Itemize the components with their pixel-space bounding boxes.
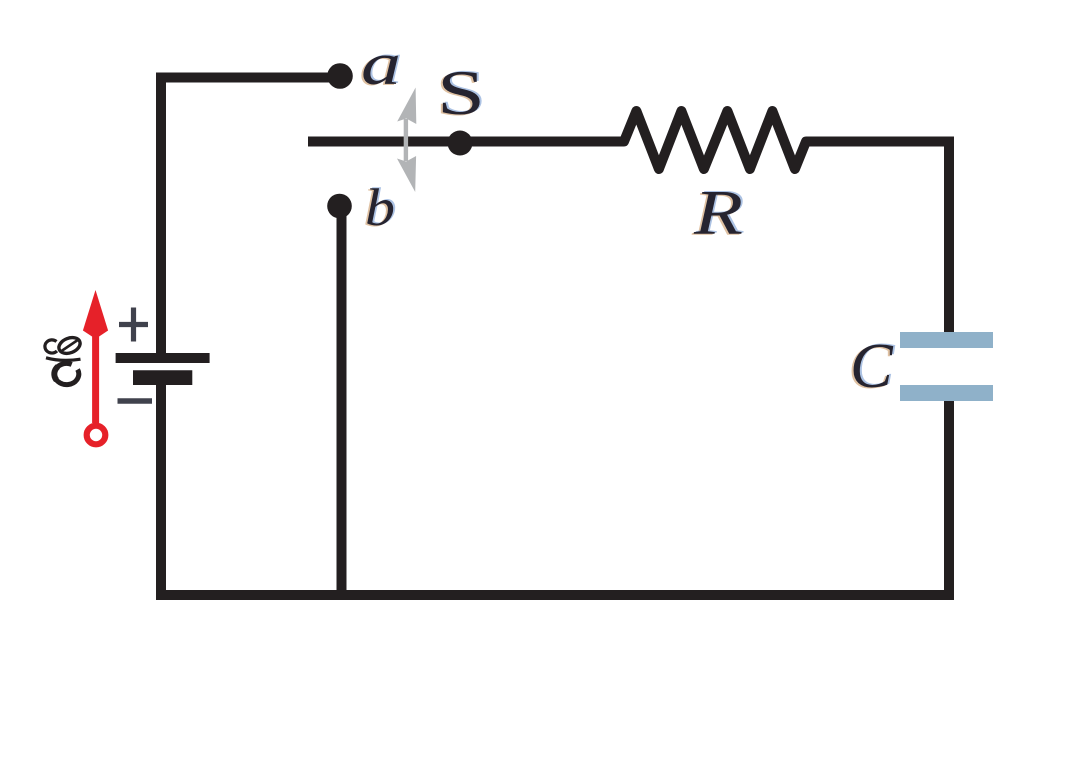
contact b node dot [327, 194, 352, 219]
label S [435, 56, 487, 129]
switch S: lever wire and resistor feed [308, 111, 954, 169]
wire right vertical upper segment [944, 137, 954, 333]
battery EMF source: long positive plate [116, 353, 210, 363]
svg-text:C: C [850, 330, 894, 401]
contact a node dot [327, 63, 353, 89]
capacitor C: top plate [900, 332, 993, 348]
battery plus polarity mark [119, 308, 148, 342]
wire left vertical lower segment [156, 385, 166, 600]
wire left vertical upper segment [156, 73, 166, 354]
capacitor C: bottom plate [900, 385, 993, 401]
switch motion double arrow (gray) [397, 88, 416, 193]
EMF arrow (red) with open circle tail [83, 290, 108, 444]
svg-text:R: R [693, 177, 743, 248]
switch pivot node dot [448, 131, 473, 156]
battery EMF source: short negative plate [133, 370, 192, 385]
svg-text:b: b [365, 179, 395, 237]
label b [363, 178, 397, 238]
label a [359, 30, 403, 98]
label R [691, 176, 745, 249]
svg-text:a: a [361, 31, 401, 97]
wire vertical from contact b to bottom wire [337, 206, 347, 595]
svg-text:S: S [437, 57, 485, 128]
wire right vertical lower segment [944, 401, 954, 600]
label C [848, 329, 896, 402]
wire bottom horizontal [156, 590, 954, 600]
wire top-left horizontal (battery top to contact a) [156, 73, 340, 83]
EMF script-E label [45, 335, 82, 385]
battery minus polarity mark [118, 398, 153, 404]
